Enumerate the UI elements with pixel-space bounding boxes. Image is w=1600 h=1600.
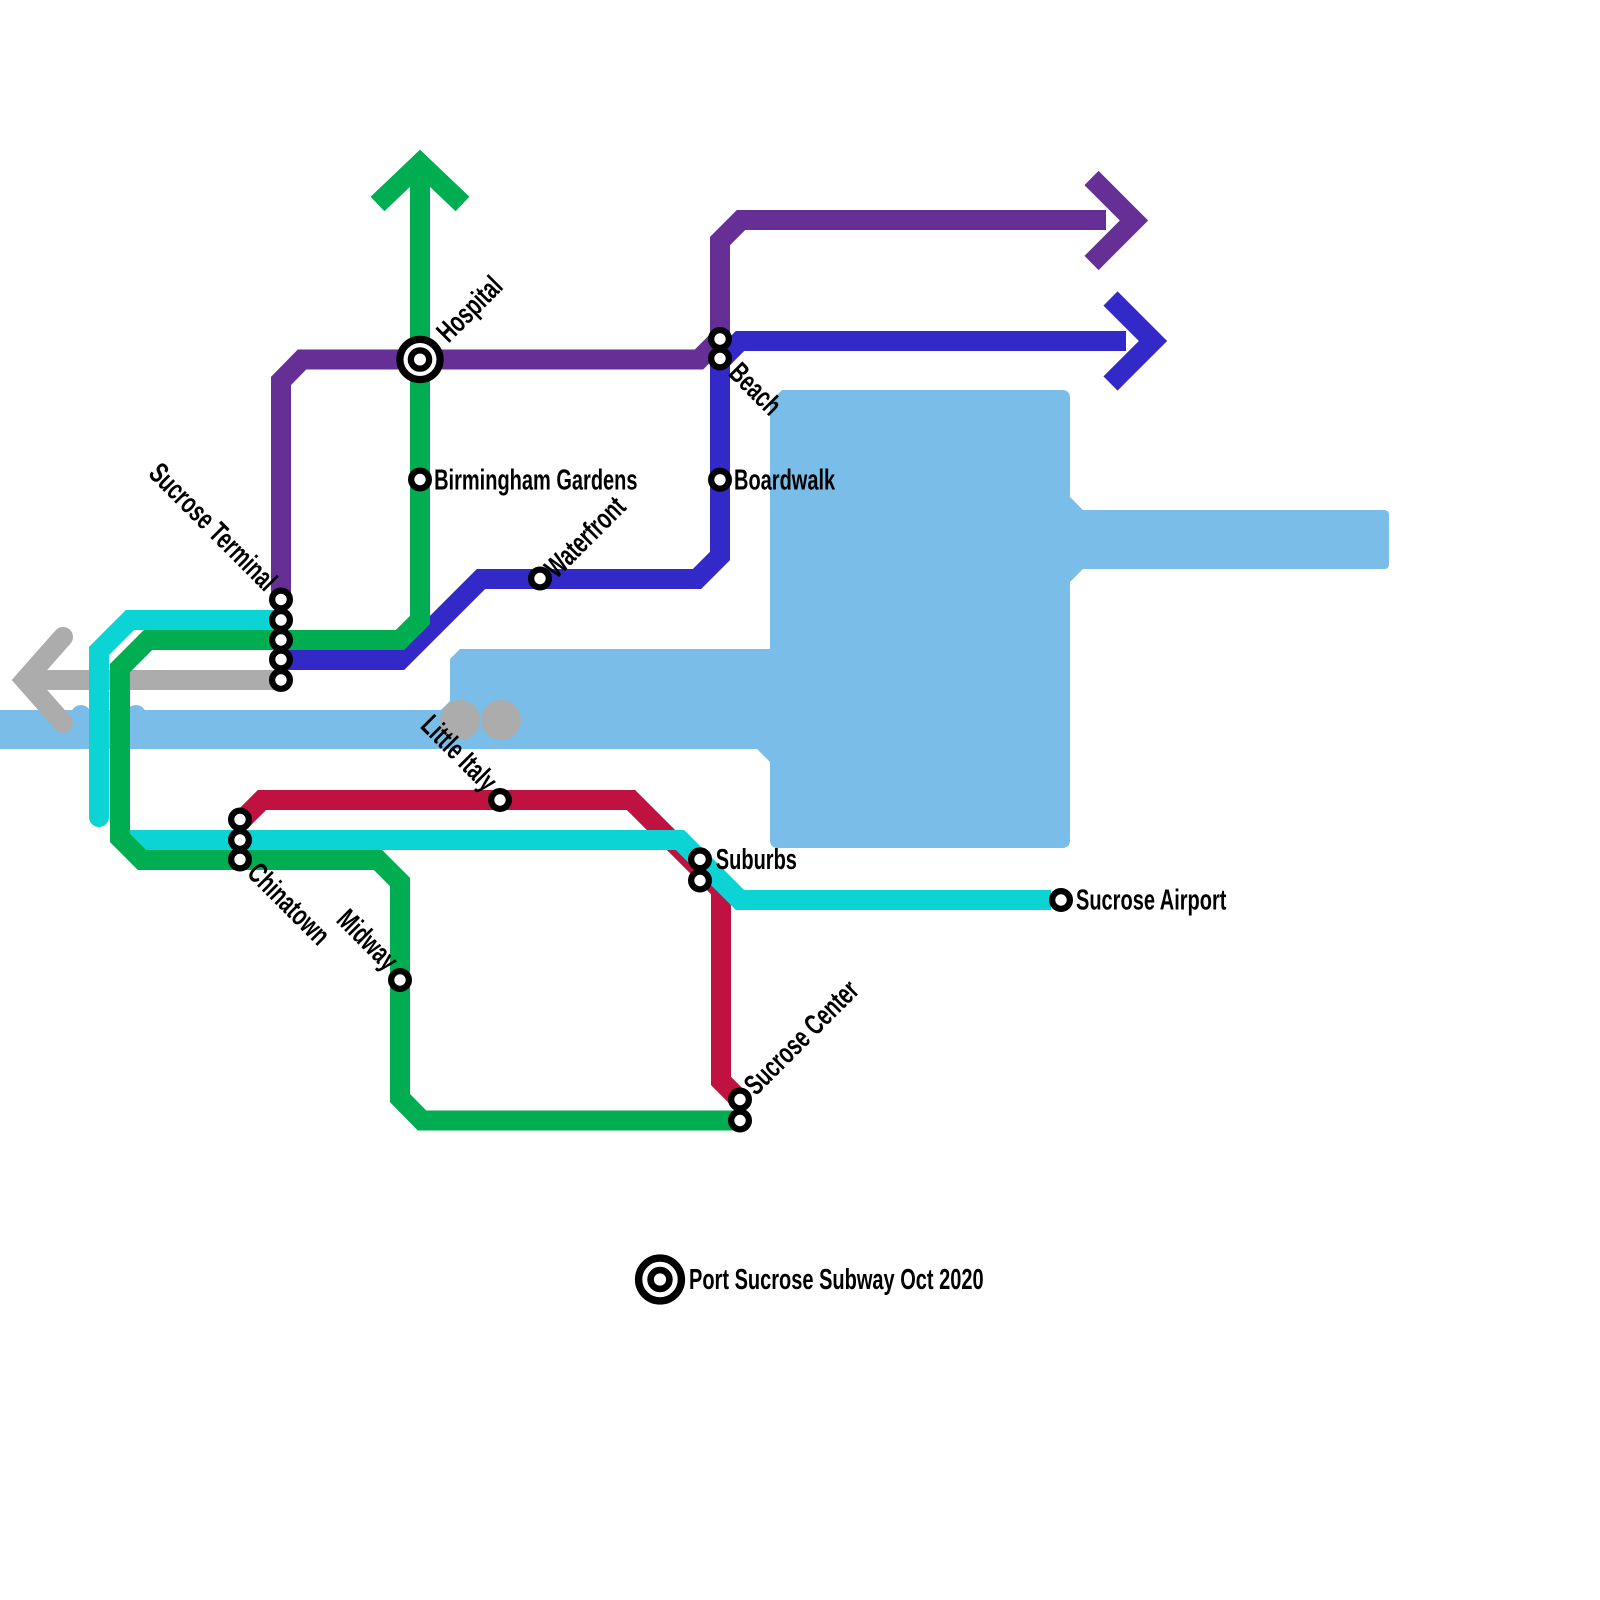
station Hospital interchange roundel (400, 339, 440, 379)
green line (120, 165, 746, 1121)
station Little Italy (491, 791, 509, 809)
station Boardwalk (711, 471, 729, 489)
ferry dot 1 (440, 700, 480, 740)
svg-text:Suburbs: Suburbs (716, 843, 797, 876)
river cap bump west (71, 705, 91, 725)
station Suburbs (2 dots) (691, 850, 709, 889)
station Chinatown stack (231, 811, 249, 869)
station Midway (391, 971, 409, 989)
station Sucrose Center (2 dots) (731, 1091, 749, 1130)
cyan line west terminus (99, 620, 281, 817)
gray line shaft (30, 670, 281, 690)
cyan line airport branch (130, 840, 1051, 900)
svg-text:Boardwalk: Boardwalk (734, 464, 835, 497)
river cap bump east (126, 705, 146, 725)
station Birmingham Gardens (411, 471, 429, 489)
station Sucrose Terminal stack (272, 591, 290, 689)
water: river, harbor block, lake and east arm (0, 390, 1389, 848)
purple line arrow (1092, 178, 1135, 263)
red line (242, 800, 741, 1100)
gray line arrow (25, 637, 63, 723)
ferry dot 2 (481, 700, 521, 740)
green line arrow (378, 164, 463, 205)
blue line (281, 341, 1126, 660)
purple line (281, 220, 1106, 600)
blue line arrow (1111, 299, 1154, 384)
legend roundel (639, 1258, 682, 1301)
station Waterfront (531, 570, 549, 588)
svg-text:Sucrose Airport: Sucrose Airport (1076, 884, 1226, 917)
station Beach (2 dots) (711, 330, 729, 367)
svg-text:Port Sucrose Subway Oct 2020: Port Sucrose Subway Oct 2020 (689, 1263, 984, 1296)
station Sucrose Airport (1052, 891, 1070, 909)
